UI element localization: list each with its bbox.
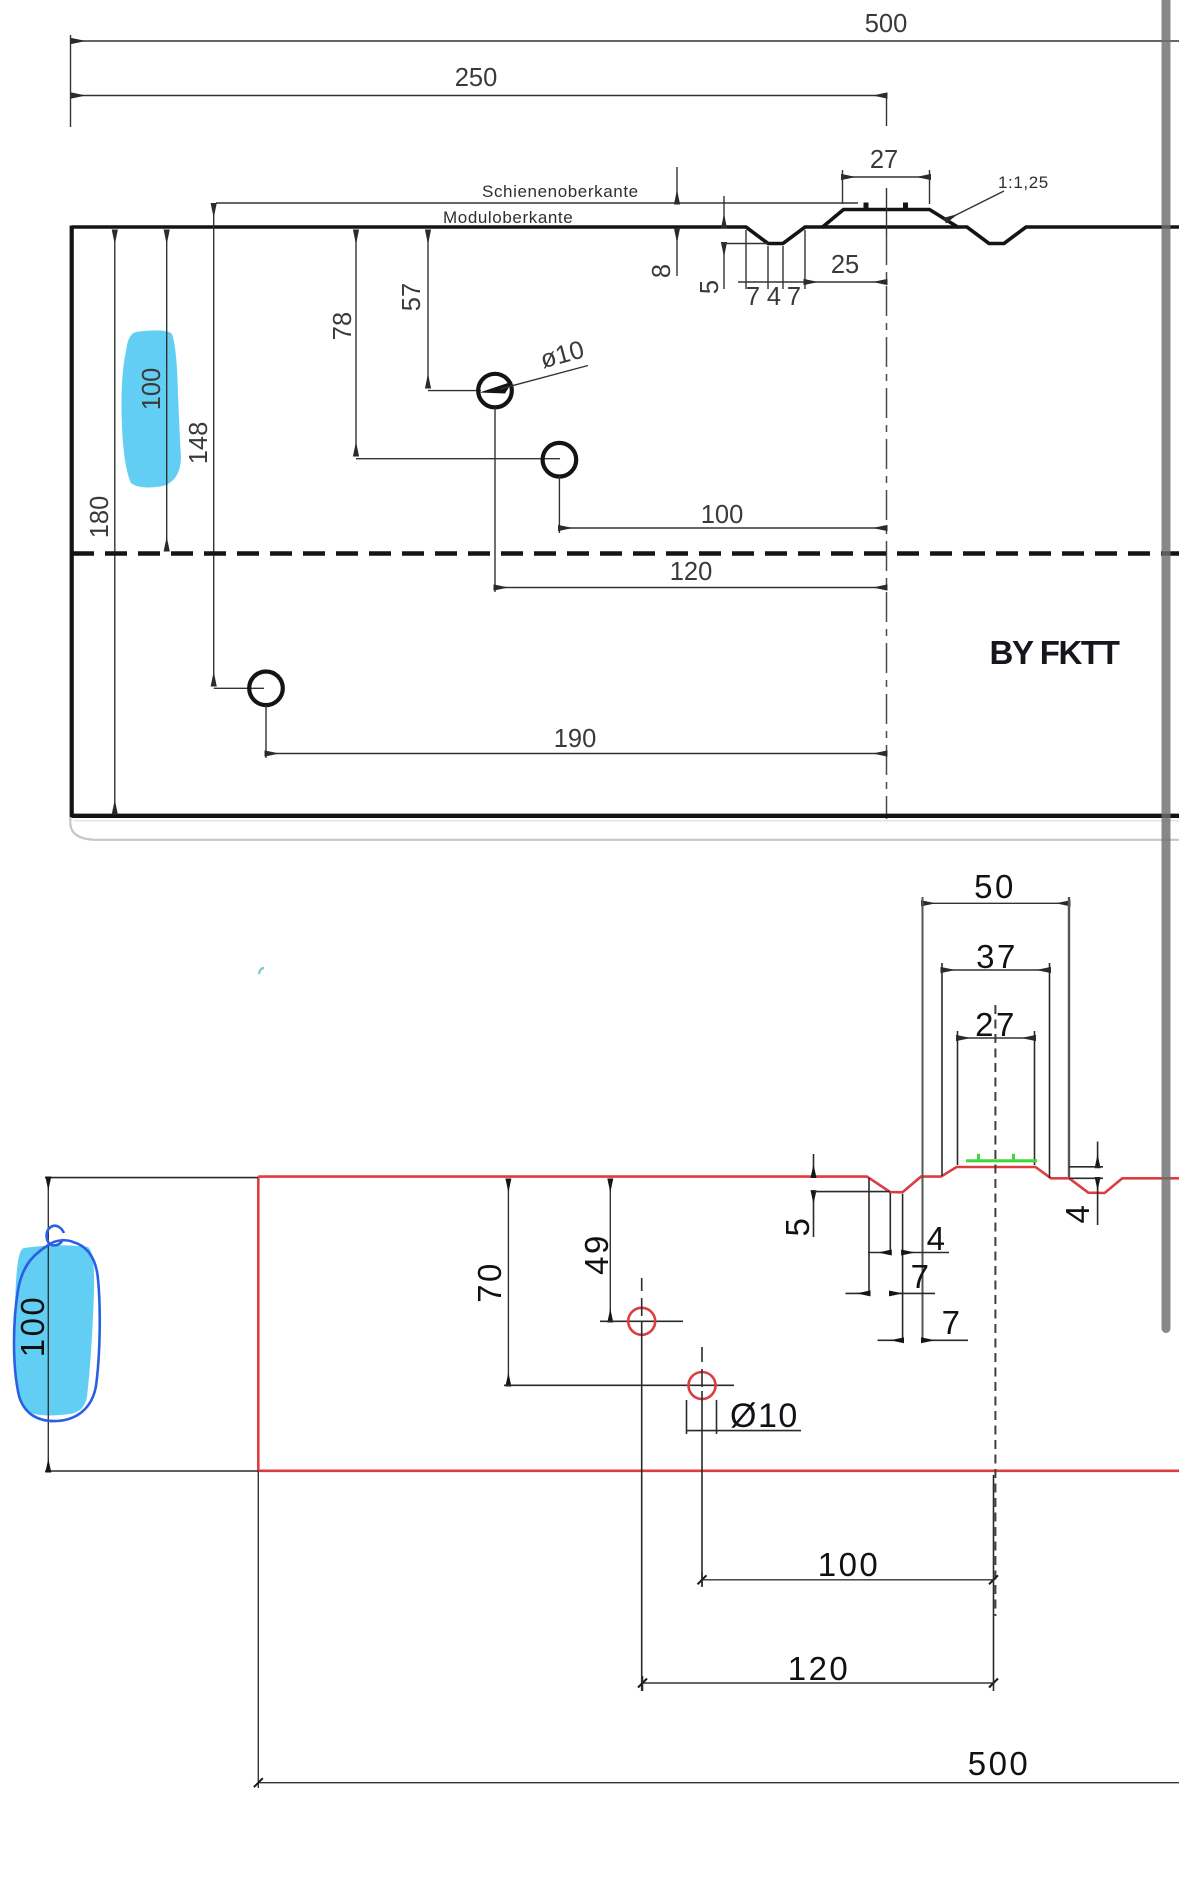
dimension 190 <box>266 725 886 754</box>
svg-text:BY FKTT: BY FKTT <box>990 634 1120 671</box>
svg-text:78: 78 <box>329 312 357 340</box>
svg-text:5: 5 <box>696 280 724 294</box>
circle 2 drop line <box>558 477 560 534</box>
dimension 100 horizontal <box>559 501 886 529</box>
svg-text:4: 4 <box>1059 1203 1096 1224</box>
svg-text:190: 190 <box>554 725 597 753</box>
rail left <box>864 203 869 210</box>
dimension 27 bottom <box>958 1006 1035 1043</box>
blue highlight blob bottom (fill) <box>15 1245 94 1415</box>
svg-text:7: 7 <box>911 1258 932 1295</box>
dimension 250 label <box>455 64 498 92</box>
dimension 100 bottom <box>702 1546 994 1587</box>
dimension 27 line <box>843 176 930 178</box>
label BY FKTT <box>990 634 1120 671</box>
label diameter 10 <box>686 1397 801 1435</box>
scrollbar <box>1162 0 1171 1333</box>
dimension 100 left vertical <box>14 1178 51 1471</box>
svg-text:7: 7 <box>787 283 801 311</box>
dimension 100 vertical <box>138 231 167 550</box>
crosshair circle A horizontal <box>600 1320 683 1322</box>
svg-text:57: 57 <box>398 283 426 311</box>
dimension 500 bottom <box>258 1745 1179 1783</box>
svg-text:120: 120 <box>670 558 713 586</box>
Schienenoberkante level line <box>216 202 858 204</box>
svg-text:100: 100 <box>701 501 744 529</box>
dimension 50 <box>923 868 1070 905</box>
label o10 <box>537 336 587 374</box>
hole circle A red <box>628 1308 655 1335</box>
extension line left edge <box>70 35 72 127</box>
dimension 120 <box>495 558 886 588</box>
extension verticals ditch bottom <box>869 1178 903 1340</box>
dimension 49 <box>578 1180 615 1321</box>
svg-text:Schienenoberkante: Schienenoberkante <box>482 182 639 201</box>
dimension 37 <box>942 938 1050 975</box>
dimension 7 lower <box>878 1304 969 1341</box>
slope note 1:1,25 <box>946 173 1049 220</box>
red left border <box>257 1177 260 1471</box>
labels 7 4 7 <box>746 283 801 311</box>
dimension 120 bottom <box>643 1475 994 1691</box>
svg-text:25: 25 <box>831 251 859 279</box>
svg-text:250: 250 <box>455 64 498 92</box>
svg-text:500: 500 <box>968 1745 1031 1782</box>
svg-text:37: 37 <box>976 938 1018 975</box>
small teal mark <box>259 968 264 974</box>
track centerline dash-dot <box>886 188 888 819</box>
label Moduloberkante <box>443 208 573 227</box>
svg-text:7: 7 <box>746 283 760 311</box>
green rail line <box>966 1154 1037 1161</box>
leader arrow inside circle 1 <box>480 382 513 394</box>
black vertical extension below red corner <box>257 1471 259 1788</box>
leader line o10 <box>500 366 588 390</box>
svg-text:27: 27 <box>870 146 898 174</box>
red bottom line <box>258 1470 1179 1473</box>
dimension 27 label <box>870 146 898 174</box>
dimension 70 <box>471 1180 508 1385</box>
hole circle 3 <box>249 672 283 706</box>
circle B centerline above <box>701 1347 703 1387</box>
svg-text:100: 100 <box>138 368 166 411</box>
blue pen outline <box>14 1226 100 1421</box>
dimension 4 right <box>1059 1142 1103 1226</box>
crosshair circle B horizontal <box>504 1384 734 1386</box>
left frame border <box>70 226 74 819</box>
red module top profile <box>258 1167 1179 1193</box>
circle A centerline above <box>641 1278 643 1316</box>
black extension bottom left <box>45 1470 258 1472</box>
dimension 7 4 7 line <box>738 281 805 283</box>
extension lines 27 <box>843 170 930 204</box>
label 25 <box>831 251 859 279</box>
label Schienenoberkante <box>482 182 639 201</box>
dimension 5 (ditch depth) <box>696 196 768 294</box>
circle B drop line <box>701 1391 703 1586</box>
diameter extension lines <box>687 1400 717 1434</box>
centerline dashed bottom <box>994 1005 996 1616</box>
bottom frame border <box>70 814 1179 818</box>
dimension 180 <box>86 231 115 813</box>
svg-text:120: 120 <box>788 1650 851 1687</box>
dimension 78 <box>329 231 560 459</box>
svg-text:70: 70 <box>471 1261 508 1303</box>
svg-text:50: 50 <box>974 868 1016 905</box>
hole circle B red <box>689 1372 716 1399</box>
svg-text:49: 49 <box>578 1233 615 1275</box>
extension lines 37 <box>942 963 1050 1178</box>
hole circle 2 <box>543 443 577 477</box>
svg-text:500: 500 <box>865 10 908 38</box>
svg-text:1:1,25: 1:1,25 <box>998 173 1049 192</box>
svg-text:148: 148 <box>185 422 213 465</box>
svg-text:4: 4 <box>927 1220 948 1257</box>
dimension 57 <box>398 231 481 391</box>
dimension 25 line <box>805 281 886 283</box>
black extension top left <box>45 1177 258 1179</box>
blue highlight blob top (fill) <box>122 330 182 487</box>
circle 3 drop line <box>265 705 267 758</box>
svg-text:4: 4 <box>767 283 781 311</box>
svg-text:Ø10: Ø10 <box>730 1397 799 1435</box>
rail right <box>903 203 908 210</box>
circle 1 drop line <box>494 408 496 593</box>
circle A drop line <box>641 1322 643 1691</box>
track embankment <box>822 210 959 228</box>
module top edge line with ditches <box>72 227 1179 244</box>
svg-text:5: 5 <box>779 1216 816 1237</box>
svg-text:7: 7 <box>942 1304 963 1341</box>
svg-text:100: 100 <box>14 1295 51 1358</box>
dimension 8 (rail top to module top) <box>648 167 677 278</box>
dimension 500 label <box>865 10 908 38</box>
dimension 4 left <box>868 1220 949 1257</box>
page corner shadow <box>70 817 1179 840</box>
svg-text:100: 100 <box>818 1546 881 1583</box>
centerline upper stub <box>886 96 888 127</box>
extension lines 27 bottom <box>958 1031 1035 1165</box>
svg-text:8: 8 <box>648 264 676 278</box>
dimension 500 line <box>73 40 1179 42</box>
dashed module split line <box>72 551 1179 555</box>
dimension 7 upper <box>846 1258 936 1295</box>
svg-text:180: 180 <box>86 496 114 539</box>
dimension 148 <box>185 205 264 689</box>
extension lines 7 4 7 <box>746 230 805 289</box>
svg-text:Moduloberkante: Moduloberkante <box>443 208 573 227</box>
hole circle 1 <box>478 374 512 408</box>
dimension 5 bottom left <box>779 1154 890 1237</box>
dimension 250 line <box>73 95 887 97</box>
extension lines 50 <box>923 897 1070 1340</box>
